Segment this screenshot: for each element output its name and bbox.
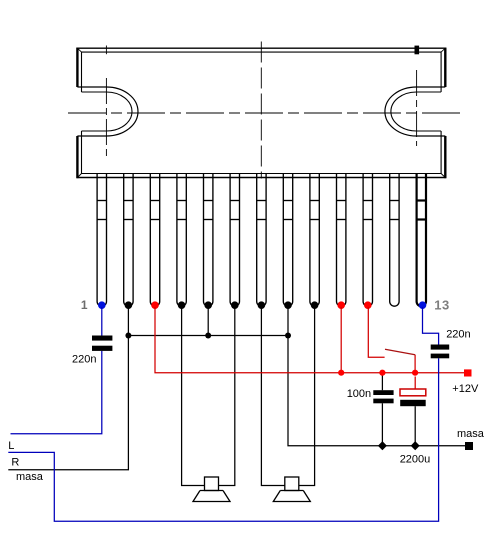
svg-text:1: 1 — [81, 298, 88, 312]
svg-text:220n: 220n — [446, 329, 470, 341]
svg-text:13: 13 — [434, 298, 449, 313]
svg-text:L: L — [8, 440, 14, 452]
svg-text:masa: masa — [16, 471, 44, 483]
svg-text:R: R — [11, 456, 19, 468]
svg-text:220n: 220n — [72, 354, 96, 366]
svg-text:100n: 100n — [347, 388, 371, 400]
svg-text:+12V: +12V — [452, 383, 479, 395]
svg-text:2200u: 2200u — [400, 453, 431, 465]
svg-text:masa: masa — [457, 428, 485, 440]
